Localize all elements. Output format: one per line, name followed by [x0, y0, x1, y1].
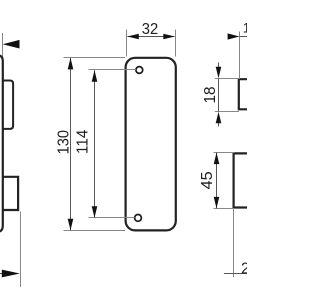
- left view: lock box: [3, 177, 18, 210]
- left view: depth dimension stub line: [0, 273, 3, 275]
- left view: profile edge: [0, 55, 3, 231]
- dim 45: bottom arrow: [214, 197, 220, 209]
- dim 18: top outside arrow stub: [218, 63, 220, 68]
- top right: right-pointing arrow: [228, 33, 240, 39]
- svg-text:18: 18: [202, 86, 219, 103]
- dim 45: top extension line: [214, 152, 235, 154]
- ext line: plate bottom to 130 dim: [64, 230, 126, 232]
- bottom screw hole: [135, 215, 142, 222]
- dim 18: bottom outside arrow stub: [218, 123, 220, 127]
- dim 130: bottom arrow: [68, 219, 74, 231]
- dim 32: right arrow: [163, 34, 175, 40]
- dim 32: left arrow: [127, 34, 139, 40]
- dim 18: top extension line: [215, 78, 240, 80]
- latch box section (upper, cut off at right): [239, 79, 248, 109]
- top right: extension line from latch box edge: [239, 32, 241, 79]
- dim 18: bottom extension line: [215, 111, 239, 113]
- top screw hole: [136, 67, 143, 74]
- svg-text:130: 130: [56, 130, 73, 154]
- left view: thickness dimension arrow (cut off at left): [3, 40, 20, 49]
- ext line: bottom hole center to 114 dim: [89, 217, 135, 219]
- dim 114: top arrow: [92, 70, 98, 82]
- top right: dimension line to image edge: [239, 36, 247, 38]
- dim 18: bottom outside arrow: [216, 112, 222, 124]
- dim 45: top arrow: [214, 153, 220, 165]
- svg-text:16: 16: [243, 21, 247, 36]
- front plate outline: [126, 58, 176, 231]
- dim 32: right extension line: [175, 30, 177, 57]
- dim 114: bottom arrow: [92, 206, 98, 218]
- dim 114: dimension line: [94, 70, 96, 218]
- dim 45: dimension line: [216, 153, 218, 209]
- dim 32: left extension line: [126, 30, 128, 57]
- svg-text:25: 25: [241, 260, 247, 277]
- dim 45: bottom extension line: [214, 208, 235, 210]
- dim 18: dimension line: [218, 79, 220, 112]
- svg-text:114: 114: [75, 129, 92, 154]
- dim 18: top outside arrow: [216, 67, 222, 79]
- left view: bottom extension line: [20, 212, 22, 288]
- bottom right: extension line below strike box: [233, 209, 235, 278]
- left view: depth dimension arrow (cut off at left): [2, 270, 20, 278]
- svg-text:45: 45: [199, 171, 216, 189]
- dim 32: dimension line: [128, 36, 175, 38]
- dim 130: dimension line: [70, 58, 72, 230]
- left view: top extension line: [2, 33, 4, 58]
- bottom right: dimension line (cut off at right): [224, 273, 247, 275]
- svg-text:32: 32: [142, 21, 158, 38]
- ext line: top hole center to 114 dim: [89, 69, 136, 71]
- left view: strike lip tab: [3, 81, 13, 129]
- ext line: plate top to 130 dim: [64, 57, 126, 59]
- dim 130: top arrow: [68, 58, 74, 70]
- strike box section (lower, cut off at right): [234, 153, 248, 207]
